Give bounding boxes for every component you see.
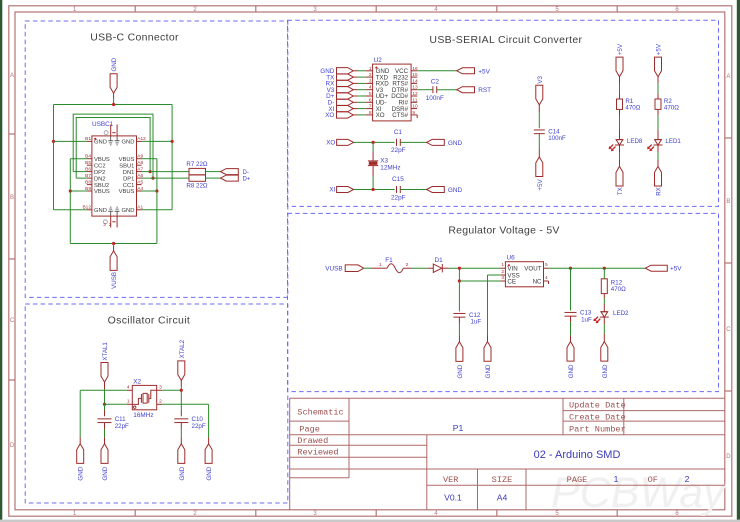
power port GND below C10 [178,444,185,464]
wire CE node to U6 CE [459,280,500,282]
svg-text:C: C [726,327,731,333]
svg-text:2: 2 [501,269,504,275]
svg-text:Regulator Voltage - 5V: Regulator Voltage - 5V [448,225,559,237]
pin A7 DN1 [137,171,142,173]
pin B6 DP2 [87,171,92,173]
pin 15 R232 [411,76,417,78]
power port TX [616,166,623,186]
svg-text:VUSB: VUSB [111,272,118,289]
left page edge strip [0,0,2,522]
svg-text:GND: GND [102,466,109,480]
pin 4 V3 with input port V3 [366,89,373,91]
pin 13 DTR# [411,89,417,91]
svg-text:R8 22Ω: R8 22Ω [186,183,208,190]
wire down to R12 [603,268,605,279]
led LED8 [616,139,623,141]
wire C12 to GND [458,317,460,323]
wire XO to C1 [354,141,395,143]
svg-text:Drawed: Drawed [297,436,328,446]
junction XI crystal [372,188,375,191]
pin 1 GND with input port GND [366,70,373,72]
port XI input [337,187,354,193]
svg-text:GND: GND [206,466,213,480]
pin A9 VBUS [137,158,142,160]
svg-text:A12: A12 [137,136,146,142]
svg-text:4: 4 [545,275,548,281]
svg-text:16MHz: 16MHz [133,412,153,419]
svg-text:A7: A7 [137,166,143,172]
wire VBUS left vertical [69,159,71,244]
svg-text:470Ω: 470Ω [664,105,679,112]
svg-text:4: 4 [127,384,130,390]
wire +5V to R1 [619,77,621,83]
svg-text:RST: RST [478,87,491,94]
pin 8 XO with input port XO [366,114,373,116]
port GND right of C1 [427,139,445,145]
power port GND below VSS [484,342,491,362]
wire B4 VBUS [70,158,87,160]
capacitor C13 [565,311,577,313]
Regulator section dashed box [288,213,719,391]
wire +5V to R2 [657,77,659,83]
pin B7 DN2 [87,177,92,179]
svg-text:CC2: CC2 [94,163,106,169]
svg-text:470Ω: 470Ω [625,105,640,112]
svg-text:C11: C11 [115,416,126,423]
junction C13 node [569,267,572,270]
svg-text:B12: B12 [82,205,91,211]
wire B1 GND [54,140,87,142]
usb connector pin 1 marker [94,138,96,140]
wire VBUS right vertical [156,159,158,244]
svg-text:C10: C10 [192,416,204,423]
svg-text:USB-SERIAL Circuit Converter: USB-SERIAL Circuit Converter [429,34,582,46]
svg-text:6: 6 [369,97,372,103]
svg-text:Create Date: Create Date [569,412,626,422]
svg-text:3: 3 [159,384,162,390]
bottom page edge strip [0,520,740,522]
svg-text:GND: GND [602,364,609,378]
pin B9 VBUS [87,190,92,192]
svg-text:XI: XI [329,187,335,194]
power port +5V above R2 [655,57,662,77]
svg-text:VBUS: VBUS [94,157,110,163]
svg-text:C13: C13 [580,309,592,316]
svg-text:A9: A9 [137,154,143,160]
svg-text:B4: B4 [85,154,91,160]
svg-text:RX: RX [656,187,663,196]
capacitor C1 [396,139,398,146]
svg-text:XO: XO [326,140,335,147]
svg-text:LED2: LED2 [613,310,629,317]
pin 9 CTS# [411,114,417,116]
usb connector shield marks inside bottom [110,211,112,215]
wire pin3 row [162,389,181,391]
crystal X2 body [132,385,156,409]
wire VBUS bottom rail [70,243,157,245]
svg-text:B5: B5 [85,160,91,166]
svg-text:1: 1 [379,262,382,268]
junction XTAL2 node [180,389,183,392]
wire A1 GND [142,209,173,211]
svg-text:A4: A4 [137,186,143,192]
pin 4 crystal [127,389,133,391]
pin 1 crystal [127,403,133,405]
svg-text:Oscillator Circuit: Oscillator Circuit [108,315,191,327]
junction R12 node [603,267,606,270]
svg-text:1: 1 [369,66,372,72]
svg-text:B: B [726,199,730,205]
svg-text:X2: X2 [133,378,141,385]
svg-text:1: 1 [614,474,619,484]
svg-text:LED8: LED8 [627,138,643,145]
svg-text:22pF: 22pF [192,423,206,430]
svg-text:XTAL2: XTAL2 [179,339,186,358]
svg-text:5: 5 [545,262,548,268]
port GND right of C15 [427,187,445,193]
wire F1 to D1 [403,267,411,269]
resistor R1 body [617,99,623,109]
svg-text:3: 3 [501,275,504,281]
wire A4 VBUS [142,190,157,192]
wire VCC to +5V [417,70,457,72]
usb connector shield marks inside top [110,136,112,140]
svg-text:22pF: 22pF [115,423,129,430]
wire GND left vertical [53,105,55,210]
svg-text:5: 5 [369,91,372,97]
svg-text:SBU1: SBU1 [119,163,134,169]
svg-text:2: 2 [159,398,162,404]
wire down to C12 [458,311,460,313]
power port GND below LED2 [601,342,608,362]
wire CE node down to C12 [458,281,460,312]
svg-text:GND: GND [179,466,186,480]
svg-text:100nF: 100nF [426,95,444,102]
wire DP2 wrap-around [73,114,153,178]
crystal X2 glyph [132,398,141,404]
power port +5V below C14 [536,157,543,177]
svg-text:LED1: LED1 [665,138,681,145]
svg-text:VBUS: VBUS [119,157,135,163]
pin B12 GND [87,209,92,211]
svg-text:Update Date: Update Date [569,400,626,410]
wire VUSB port stub [113,244,115,246]
svg-text:VBUS: VBUS [119,189,135,195]
svg-text:C1: C1 [394,129,403,136]
frame column ticks top [134,6,136,12]
svg-text:100nF: 100nF [548,135,566,142]
pin 10 DSR# [411,108,417,110]
svg-text:USB-C Connector: USB-C Connector [90,32,179,44]
wire XTAL2 node down to C10 [180,390,182,410]
wire C10 to GND [180,423,182,429]
wire down to C13 [570,268,572,310]
svg-text:C: C [10,318,15,324]
svg-text:DN1: DN1 [123,170,135,176]
pin 14 RTS# [411,82,417,84]
svg-text:+5V: +5V [656,43,663,55]
port RST [457,87,475,93]
wire R1 to LED8 [619,109,621,115]
svg-text:CTS#: CTS# [392,112,408,119]
wire C15 to GND flag [400,189,426,191]
port XO input [337,139,354,145]
wire C14 to +5V port [538,134,540,149]
pin A8 SBU1 [137,164,142,166]
power port GND osc far right [205,444,212,464]
pin 1 VIN [500,267,505,269]
svg-text:+5V: +5V [617,43,624,55]
wire left ground vertical [79,390,81,437]
svg-text:11: 11 [412,97,417,103]
svg-text:+5V: +5V [537,179,544,191]
capacitor C12 [453,312,465,314]
crystal X3 [368,160,378,162]
svg-text:1: 1 [127,398,130,404]
capacitor C15 [396,186,398,193]
wire DN2 wrap-around [76,118,150,179]
svg-text:VOUT: VOUT [524,266,541,273]
svg-text:D-: D- [243,170,249,176]
svg-text:A8: A8 [137,160,143,166]
ic U2 pin 1 marker [375,67,377,69]
wire XTAL2 down to pin 3 row [180,381,182,388]
wire A9 VBUS [142,158,157,160]
wire D1 to U6 VIN [442,267,448,269]
svg-text:Page: Page [299,425,320,435]
svg-text:V3: V3 [537,75,544,83]
capacitor C10 [174,418,188,420]
svg-text:4: 4 [369,85,372,91]
port VUSB input regulator [345,265,364,272]
wire crystal X3 vertical top [372,142,374,152]
wire crystal X3 vertical bottom [372,166,374,176]
wire DTR# to C2 [417,89,433,91]
junction GND rail [112,103,115,106]
svg-text:1uF: 1uF [471,318,482,325]
svg-text:CE: CE [507,279,516,286]
wire LED1 to RX port [657,145,659,152]
svg-text:15: 15 [412,72,418,78]
resistor R7 body [189,168,206,174]
pin A6 DP1 [137,177,142,179]
junction DP1 [151,177,154,180]
svg-text:12: 12 [412,91,418,97]
junction DN1 [149,170,152,173]
svg-text:B7: B7 [85,173,91,179]
wire XTAL1 node down to C11 [104,404,106,410]
pin 12 DCD# [411,95,417,97]
capacitor C14 [534,129,545,131]
svg-text:A: A [10,73,14,79]
pin 3 CE [500,280,505,282]
svg-text:+5V: +5V [670,266,682,273]
pin 4 NC [544,280,549,282]
ic U2 body [373,64,412,121]
svg-text:F1: F1 [385,257,393,264]
svg-text:GND: GND [94,208,107,214]
svg-text:CC1: CC1 [123,183,135,189]
power port GND osc far left [77,444,84,464]
junction XO crystal [372,141,375,144]
resistor R8 body [189,175,206,181]
wire VSS to ground vertical [488,274,501,276]
pin A5 CC1 [137,184,142,186]
pin B1 GND [87,140,92,142]
svg-text:470Ω: 470Ω [611,286,626,293]
power port GND below C13 [567,342,574,362]
capacitor C2 [432,86,434,93]
power port +5V above R1 [616,57,623,77]
svg-text:GND: GND [448,140,463,147]
svg-text:GND: GND [568,364,575,378]
svg-text:DP2: DP2 [94,170,105,176]
wire R12 to LED2 [603,294,605,298]
svg-text:C2: C2 [431,78,440,85]
led LED2 [601,311,608,313]
pin 5 UD+ with input port D+ [366,95,373,97]
pin B8 SBU2 [87,184,92,186]
junction B9 VBUS [69,189,72,192]
svg-text:Part Number: Part Number [569,424,626,434]
Oscillator Circuit section dashed box [25,304,288,503]
svg-text:GND: GND [122,140,135,146]
svg-text:10: 10 [412,104,418,110]
wire C2 to RST [437,89,457,91]
wire B9 VBUS [70,190,87,192]
svg-text:GND: GND [122,208,135,214]
power port V3 [536,85,543,105]
svg-text:GND: GND [448,187,463,194]
port D+ [221,175,239,181]
svg-text:SBU2: SBU2 [94,183,109,189]
svg-text:1uF: 1uF [581,316,592,323]
wire VOUT to +5V [549,267,646,269]
port +5V regulator output [645,265,667,271]
power port GND below C11 [101,444,108,464]
pin A12 GND [137,140,142,142]
junction XTAL1 node [103,403,106,406]
svg-text:U6: U6 [507,254,516,261]
svg-text:C15: C15 [392,176,404,183]
junction VUSB [112,242,115,245]
wire pin4 to ground rail left [80,389,127,391]
pin B5 CC2 [87,164,92,166]
wire VUSB to F1 [364,267,372,269]
svg-text:02 - Arduino SMD: 02 - Arduino SMD [534,449,621,461]
svg-text:GND: GND [78,466,85,480]
wire DN1 to R7 [142,171,190,173]
title block grid lines [290,397,725,399]
wire pin1 row [105,403,127,405]
port +5V at U2 VCC [457,68,475,74]
wire C13 to GND [570,316,572,322]
usb connector shield pins bottom [110,216,112,227]
svg-text:12MHz: 12MHz [380,165,400,172]
svg-text:Reviewed: Reviewed [297,447,338,457]
svg-text:U2: U2 [374,57,383,64]
wire DP2 to pin [73,171,87,173]
led LED1 [655,139,662,141]
svg-text:A: A [726,74,730,80]
wire GND port to top rail [113,93,115,98]
svg-text:9: 9 [412,110,415,116]
svg-text:VUSB: VUSB [325,266,342,273]
pin 16 VCC [411,70,417,72]
svg-text:TX: TX [617,187,624,195]
pin 2 crystal [157,403,163,405]
power port XTAL2 [178,361,185,381]
svg-text:B9: B9 [85,186,91,192]
USB-C Connector section dashed box [25,21,288,297]
svg-text:D1: D1 [435,257,444,264]
svg-text:B: B [10,195,14,201]
power port RX [655,166,662,186]
svg-text:VBUS: VBUS [94,189,110,195]
svg-text:D+: D+ [243,177,251,183]
svg-text:+5V: +5V [478,68,490,75]
pin B4 VBUS [87,158,92,160]
pin 11 RI# [411,101,417,103]
svg-text:P1: P1 [453,423,464,433]
svg-text:14: 14 [412,78,418,84]
wire VIN node down to CE [458,268,460,281]
pin 6 UD- with input port D- [366,101,373,103]
pin A1 GND [137,209,142,211]
svg-text:A6: A6 [137,173,143,179]
right page edge strip [737,0,740,522]
diode D1 [433,264,442,272]
svg-text:Schematic: Schematic [297,407,343,417]
svg-text:NC: NC [533,279,542,286]
svg-text:A4: A4 [497,492,508,502]
junction A4 VBUS [155,189,158,192]
wire B12 GND [54,209,87,211]
pin 2 TXD with input port TX [366,76,373,78]
pin 7 XI with input port XI [366,108,373,110]
regulator U6 pin 1 marker [508,264,510,266]
wire DP1 to R8 [142,177,190,179]
wire right ground vertical [208,404,210,437]
wire XTAL1 down to pin 1 row [104,382,106,389]
svg-text:PAGE: PAGE [567,475,588,485]
wire A12 GND [142,140,173,142]
usb connector USBC1 body [92,136,137,216]
power port XTAL1 [101,363,108,383]
frame column ticks bottom [134,510,136,516]
svg-text:8: 8 [369,110,372,116]
svg-text:A5: A5 [137,179,143,185]
wire R2 to LED1 [657,109,659,115]
power port GND below C12 [456,342,463,362]
pin 3 RXD with input port RX [366,82,373,84]
svg-text:1: 1 [501,262,504,268]
svg-text:B8: B8 [85,179,91,185]
svg-text:DP1: DP1 [123,176,134,182]
frame row ticks left [9,133,15,135]
svg-text:X3: X3 [380,158,388,165]
svg-text:V0.1: V0.1 [444,492,462,502]
port D- [221,169,239,175]
USB-SERIAL section dashed box [288,20,719,206]
wire C11 to GND [104,423,106,429]
svg-text:GND: GND [485,364,492,378]
junction B1 [52,140,55,143]
wire GND right vertical [171,105,173,210]
junction A12 [171,140,174,143]
wire R7 to D- port [206,171,221,173]
junction CE node [458,279,461,282]
